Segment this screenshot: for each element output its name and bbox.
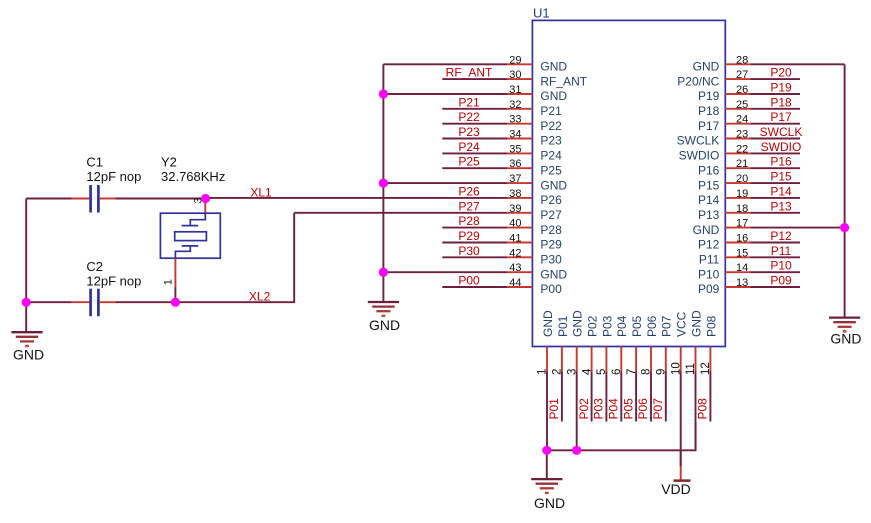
svg-text:P14: P14 <box>698 193 720 207</box>
capacitor C1 left pin <box>72 198 90 200</box>
wire pin 8 bottom <box>650 372 652 422</box>
pin 16 stub <box>725 242 750 244</box>
pin 29 stub <box>507 63 532 65</box>
svg-text:RF_ANT: RF_ANT <box>540 74 587 88</box>
pin 32 stub <box>507 108 532 110</box>
svg-text:34: 34 <box>509 129 521 141</box>
pin 24 stub <box>725 123 750 125</box>
pin 9 stub <box>665 347 667 372</box>
svg-text:35: 35 <box>509 143 521 155</box>
wire pin 33 left <box>442 123 507 125</box>
svg-text:P05: P05 <box>621 398 635 420</box>
svg-text:VDD: VDD <box>661 481 691 497</box>
wire pin11 rail corner <box>695 422 697 452</box>
junction bus pin31 <box>379 89 388 98</box>
svg-text:39: 39 <box>509 203 521 215</box>
wire pin 30 left <box>442 78 507 80</box>
svg-text:10: 10 <box>670 362 682 375</box>
wire pin 5 bottom <box>605 372 607 422</box>
svg-text:P23: P23 <box>458 125 480 139</box>
pin 20 stub <box>725 182 750 184</box>
svg-text:31: 31 <box>509 84 521 96</box>
svg-text:P20/NC: P20/NC <box>677 74 719 88</box>
ground symbol bottom <box>531 479 562 493</box>
svg-text:12pF nop: 12pF nop <box>86 169 141 184</box>
capacitor C1 right pin <box>100 198 116 200</box>
wire pin 42 left <box>442 256 507 258</box>
junction XL1 crystal <box>201 194 210 203</box>
pin 38 stub <box>507 197 532 199</box>
wire pin 31 left <box>383 93 507 95</box>
wire left GND bus vertical <box>382 64 384 302</box>
svg-text:P16: P16 <box>770 155 792 169</box>
pin 28 stub <box>725 63 750 65</box>
pin 26 stub <box>725 93 750 95</box>
svg-text:VCC: VCC <box>675 311 689 337</box>
svg-text:P16: P16 <box>698 163 720 177</box>
svg-text:P10: P10 <box>770 259 792 273</box>
svg-text:P29: P29 <box>458 229 480 243</box>
wire pin 16 right <box>750 242 800 244</box>
svg-text:40: 40 <box>509 218 521 230</box>
svg-text:P19: P19 <box>770 81 792 95</box>
wire pin 2 bottom <box>561 372 563 422</box>
svg-text:P23: P23 <box>540 134 562 148</box>
wire pin 21 right <box>750 167 800 169</box>
wire pin 34 left <box>442 138 507 140</box>
pin 13 stub <box>725 286 750 288</box>
svg-text:16: 16 <box>736 233 748 245</box>
wire pin 36 left <box>442 167 507 169</box>
wire pin 20 right <box>750 182 800 184</box>
svg-text:P17: P17 <box>698 119 720 133</box>
svg-text:3: 3 <box>566 369 578 375</box>
svg-text:P04: P04 <box>607 398 621 420</box>
svg-text:P03: P03 <box>600 315 614 337</box>
svg-text:P29: P29 <box>540 238 562 252</box>
wire pin 41 left <box>442 242 507 244</box>
svg-text:P15: P15 <box>698 178 720 192</box>
pin 4 stub <box>591 347 593 372</box>
svg-text:6: 6 <box>611 369 623 375</box>
svg-text:RF_ANT: RF_ANT <box>446 66 493 80</box>
svg-text:17: 17 <box>736 218 748 230</box>
svg-text:24: 24 <box>736 114 748 126</box>
wire pin 13 right <box>750 286 800 288</box>
pin 22 stub <box>725 152 750 154</box>
svg-text:P14: P14 <box>770 184 792 198</box>
wire pin 28 right <box>750 63 844 65</box>
pin VDD stub <box>680 466 682 480</box>
wire pin 37 left <box>383 182 507 184</box>
svg-text:GND: GND <box>571 310 585 337</box>
capacitor C2 left pin <box>72 301 90 303</box>
svg-text:P19: P19 <box>698 89 720 103</box>
ground symbol right <box>829 318 860 332</box>
pin 33 stub <box>507 123 532 125</box>
svg-text:30: 30 <box>509 69 521 81</box>
wire pin 43 left <box>383 271 507 273</box>
svg-text:U1: U1 <box>533 6 550 21</box>
pin 23 stub <box>725 138 750 140</box>
pin 3 stub <box>576 347 578 372</box>
svg-text:SWCLK: SWCLK <box>677 134 720 148</box>
pin 5 stub <box>605 347 607 372</box>
svg-text:8: 8 <box>641 369 653 375</box>
svg-text:P26: P26 <box>540 193 562 207</box>
svg-text:P21: P21 <box>540 104 562 118</box>
svg-text:2: 2 <box>552 369 564 375</box>
wire pin 6 bottom <box>620 372 622 422</box>
svg-text:P26: P26 <box>458 184 480 198</box>
pin 1 stub <box>546 347 548 372</box>
pin 35 stub <box>507 152 532 154</box>
svg-text:SWCLK: SWCLK <box>760 125 803 139</box>
svg-text:19: 19 <box>736 188 748 200</box>
wire pin 3 bottom <box>576 372 578 451</box>
pin 41 stub <box>507 242 532 244</box>
svg-text:32: 32 <box>509 99 521 111</box>
pin 7 stub <box>635 347 637 372</box>
svg-text:29: 29 <box>509 54 521 66</box>
pin 8 stub <box>650 347 652 372</box>
svg-text:GND: GND <box>693 223 720 237</box>
wire pin 29 left <box>383 63 507 65</box>
wire pin 27 right <box>750 78 800 80</box>
svg-text:P05: P05 <box>630 315 644 337</box>
svg-text:28: 28 <box>736 54 748 66</box>
svg-text:P21: P21 <box>458 95 480 109</box>
svg-text:P02: P02 <box>577 398 591 420</box>
svg-text:1: 1 <box>537 369 549 375</box>
svg-text:33: 33 <box>509 114 521 126</box>
svg-text:43: 43 <box>509 262 521 274</box>
pin 25 stub <box>725 108 750 110</box>
svg-text:P28: P28 <box>458 214 480 228</box>
svg-text:SWDIO: SWDIO <box>761 140 802 154</box>
svg-text:4: 4 <box>581 368 593 375</box>
svg-text:P24: P24 <box>458 140 480 154</box>
junction XL2 crystal <box>171 298 180 307</box>
wire XL1 to crystal <box>116 198 206 200</box>
crystal Y2 body <box>160 213 220 258</box>
svg-text:XL2: XL2 <box>249 290 271 304</box>
ground symbol mid <box>368 302 399 316</box>
svg-text:P20: P20 <box>770 66 792 80</box>
wire pin 40 left <box>442 227 507 229</box>
svg-text:XL1: XL1 <box>250 186 272 200</box>
wire pin 9 bottom <box>665 372 667 422</box>
svg-text:41: 41 <box>509 233 521 245</box>
svg-text:P00: P00 <box>458 274 480 288</box>
svg-text:P02: P02 <box>586 315 600 337</box>
wire pin 23 right <box>750 138 800 140</box>
svg-text:P25: P25 <box>458 155 480 169</box>
wire pin 32 left <box>442 108 507 110</box>
svg-text:P03: P03 <box>592 398 606 420</box>
pin 27 stub <box>725 78 750 80</box>
svg-text:42: 42 <box>509 247 521 259</box>
wire pin 7 bottom <box>635 372 637 422</box>
svg-text:P22: P22 <box>540 119 562 133</box>
svg-text:P04: P04 <box>615 315 629 337</box>
svg-text:22: 22 <box>736 143 748 155</box>
svg-text:P27: P27 <box>458 199 480 213</box>
wire pin 14 right <box>750 271 800 273</box>
svg-text:14: 14 <box>736 262 748 274</box>
svg-text:13: 13 <box>736 277 748 289</box>
op-chip U1 body <box>532 20 725 346</box>
svg-text:P12: P12 <box>770 229 792 243</box>
svg-text:GND: GND <box>540 267 567 281</box>
svg-text:18: 18 <box>736 203 748 215</box>
pin 19 stub <box>725 197 750 199</box>
svg-text:20: 20 <box>736 173 748 185</box>
svg-text:38: 38 <box>509 188 521 200</box>
wire XL2 horizontal <box>26 301 71 303</box>
svg-text:GND: GND <box>13 347 44 363</box>
svg-text:P11: P11 <box>771 244 792 258</box>
ground symbol left <box>11 332 42 346</box>
svg-text:SWDIO: SWDIO <box>679 149 720 163</box>
junction rail pin3 <box>572 446 581 455</box>
svg-text:P17: P17 <box>770 110 792 124</box>
wire pin 26 right <box>750 93 800 95</box>
pin 11 stub <box>695 347 697 372</box>
wire XL2 to corner <box>116 301 295 303</box>
svg-text:P13: P13 <box>770 199 792 213</box>
wire pin 44 left <box>442 286 507 288</box>
capacitor C2 plates <box>89 289 92 317</box>
svg-text:11: 11 <box>685 363 697 375</box>
svg-text:37: 37 <box>509 173 521 185</box>
pin 14 stub <box>725 271 750 273</box>
svg-text:12pF nop: 12pF nop <box>86 274 141 289</box>
wire pin 35 left <box>442 152 507 154</box>
svg-text:P07: P07 <box>651 398 665 420</box>
svg-text:P09: P09 <box>770 274 792 288</box>
svg-text:P25: P25 <box>540 163 562 177</box>
junction bus pin37 <box>379 179 388 188</box>
wire pin1 to ground <box>546 450 548 479</box>
svg-text:P18: P18 <box>770 95 792 109</box>
svg-text:32.768KHz: 32.768KHz <box>161 169 225 184</box>
wire pin 10 bottom <box>680 372 682 467</box>
pin 21 stub <box>725 167 750 169</box>
pin 12 stub <box>709 347 711 372</box>
svg-text:GND: GND <box>541 310 555 337</box>
capacitor C2 right pin <box>100 301 116 303</box>
wire pin 12 bottom <box>709 372 711 422</box>
svg-text:C2: C2 <box>86 259 103 274</box>
svg-text:GND: GND <box>540 178 567 192</box>
crystal Y2 pin 1 stub <box>174 258 176 287</box>
pin 30 stub <box>507 78 532 80</box>
pin 6 stub <box>620 347 622 372</box>
svg-text:P08: P08 <box>704 315 718 337</box>
wire pin 25 right <box>750 108 800 110</box>
svg-text:27: 27 <box>736 69 748 81</box>
svg-text:GND: GND <box>369 317 400 333</box>
svg-text:25: 25 <box>736 99 748 111</box>
svg-text:Y2: Y2 <box>161 155 177 170</box>
pin 43 stub <box>507 271 532 273</box>
svg-text:26: 26 <box>736 84 748 96</box>
svg-text:P12: P12 <box>698 238 720 252</box>
svg-text:P06: P06 <box>636 398 650 420</box>
svg-text:5: 5 <box>596 369 608 375</box>
wire XL1 horizontal <box>26 198 71 200</box>
wire VCC down <box>680 450 682 466</box>
svg-text:P07: P07 <box>660 315 674 337</box>
svg-text:GND: GND <box>534 495 565 511</box>
svg-text:P24: P24 <box>540 149 562 163</box>
junction left vertical XL2 <box>22 298 31 307</box>
wire pin1 crystal to XL2 <box>174 287 176 302</box>
pin 15 stub <box>725 256 750 258</box>
svg-text:36: 36 <box>509 158 521 170</box>
svg-text:P08: P08 <box>696 398 710 420</box>
wire bottom GND rail <box>547 449 696 451</box>
pin 34 stub <box>507 138 532 140</box>
svg-text:P27: P27 <box>540 208 562 222</box>
svg-text:P00: P00 <box>540 282 562 296</box>
pin 17 stub <box>725 227 750 229</box>
svg-text:P30: P30 <box>458 244 480 258</box>
power symbol VDD bar <box>674 479 691 482</box>
svg-text:9: 9 <box>656 369 668 375</box>
svg-text:P18: P18 <box>698 104 720 118</box>
wire pin 1 bottom <box>546 372 548 451</box>
svg-text:C1: C1 <box>86 155 103 170</box>
pin 42 stub <box>507 256 532 258</box>
svg-text:P22: P22 <box>458 110 480 124</box>
pin 36 stub <box>507 167 532 169</box>
pin 2 stub <box>561 347 563 372</box>
wire pin 19 right <box>750 197 800 199</box>
svg-text:P01: P01 <box>547 398 561 420</box>
svg-text:P10: P10 <box>698 267 720 281</box>
svg-text:GND: GND <box>689 310 703 337</box>
wire pin 22 right <box>750 152 800 154</box>
crystal Y2 internal symbol <box>175 213 205 258</box>
svg-text:P11: P11 <box>699 253 720 267</box>
svg-text:GND: GND <box>540 60 567 74</box>
wire pin 24 right <box>750 123 800 125</box>
svg-text:GND: GND <box>830 331 861 347</box>
svg-text:GND: GND <box>693 60 720 74</box>
svg-text:P28: P28 <box>540 223 562 237</box>
svg-text:P09: P09 <box>698 282 720 296</box>
wire right bus vertical <box>844 64 846 317</box>
wire pin 11 bottom <box>695 372 697 451</box>
crystal Y2 pin 3 stub <box>204 199 206 213</box>
pin 18 stub <box>725 212 750 214</box>
pin 40 stub <box>507 227 532 229</box>
junction bus pin43 <box>379 268 388 277</box>
pin 44 stub <box>507 286 532 288</box>
svg-text:23: 23 <box>736 129 748 141</box>
svg-text:44: 44 <box>509 277 521 289</box>
svg-text:1: 1 <box>163 279 175 285</box>
wire pin 39 left <box>294 212 507 214</box>
wire pin 18 right <box>750 212 800 214</box>
wire pin 4 bottom <box>591 372 593 422</box>
pin 10 stub <box>680 347 682 372</box>
svg-text:P13: P13 <box>698 208 720 222</box>
svg-text:21: 21 <box>736 158 748 170</box>
wire pin 15 right <box>750 256 800 258</box>
wire pin 17 right <box>750 227 844 229</box>
svg-text:P30: P30 <box>540 253 562 267</box>
capacitor C1 plates <box>89 185 92 213</box>
svg-text:GND: GND <box>540 89 567 103</box>
pin 39 stub <box>507 212 532 214</box>
svg-text:12: 12 <box>700 362 712 375</box>
svg-text:P06: P06 <box>645 315 659 337</box>
svg-text:7: 7 <box>626 369 638 375</box>
junction rail pin1 <box>542 446 551 455</box>
wire left vertical XL1-GND <box>25 199 27 333</box>
junction right bus pin17 <box>840 223 849 232</box>
wire XL2 corner vertical <box>293 213 295 303</box>
wire pin 38 left <box>206 197 508 199</box>
pin 37 stub <box>507 182 532 184</box>
pin 31 stub <box>507 93 532 95</box>
svg-text:P01: P01 <box>556 315 570 337</box>
svg-text:P15: P15 <box>770 170 792 184</box>
svg-text:15: 15 <box>736 247 748 259</box>
